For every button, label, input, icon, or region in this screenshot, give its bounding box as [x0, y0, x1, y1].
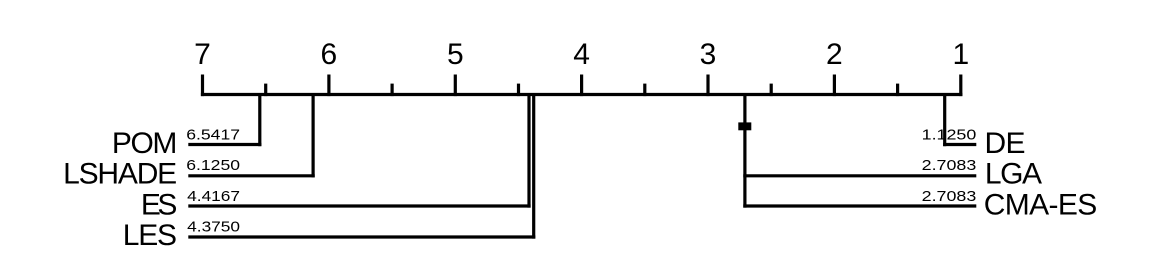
major tick 1: [959, 75, 962, 97]
svg-text:4.3750: 4.3750: [187, 219, 240, 236]
svg-text:1.1250: 1.1250: [922, 126, 977, 143]
POM drop line: [258, 93, 261, 146]
svg-text:6.5417: 6.5417: [186, 126, 240, 143]
svg-text:1: 1: [952, 38, 969, 71]
major tick 2: [833, 75, 836, 97]
LGA/CMA-ES drop line: [743, 93, 746, 208]
svg-text:DE: DE: [984, 127, 1025, 160]
svg-text:4.4167: 4.4167: [187, 188, 240, 205]
svg-text:ES: ES: [141, 188, 178, 221]
svg-text:6.1250: 6.1250: [186, 157, 240, 174]
minor tick 6.5: [264, 84, 267, 97]
DE row line: [943, 143, 976, 146]
major tick 6: [327, 75, 330, 97]
svg-text:2.7083: 2.7083: [922, 188, 977, 205]
svg-text:6: 6: [321, 38, 338, 71]
svg-text:3: 3: [700, 38, 717, 71]
svg-text:2.7083: 2.7083: [922, 157, 977, 174]
ES drop line: [527, 93, 530, 208]
LES drop line: [532, 93, 535, 239]
major tick 7: [201, 75, 204, 97]
LGA row line: [743, 174, 976, 177]
axis line: [201, 93, 963, 96]
clique bar LGA/CMA-ES: [738, 122, 751, 130]
minor tick 1.5: [896, 84, 899, 97]
svg-text:4: 4: [573, 38, 590, 71]
major tick 4: [580, 75, 583, 97]
svg-text:LSHADE: LSHADE: [63, 158, 177, 191]
ES row line: [188, 204, 530, 207]
svg-text:LGA: LGA: [985, 158, 1042, 191]
LSHADE drop line: [312, 93, 315, 177]
svg-text:2: 2: [826, 38, 843, 71]
svg-text:POM: POM: [112, 127, 178, 160]
minor tick 4.5: [517, 84, 520, 97]
major tick 3: [706, 75, 709, 97]
minor tick 5.5: [391, 84, 394, 97]
svg-text:LES: LES: [123, 219, 177, 252]
CMA-ES row line: [743, 204, 976, 207]
minor tick 2.5: [770, 84, 773, 97]
svg-text:7: 7: [194, 38, 211, 71]
major tick 5: [454, 75, 457, 97]
svg-text:5: 5: [447, 38, 464, 71]
svg-text:CMA-ES: CMA-ES: [984, 188, 1098, 221]
LSHADE row line: [188, 174, 314, 177]
minor tick 3.5: [643, 84, 646, 97]
DE drop line: [943, 93, 946, 146]
LES row line: [188, 235, 535, 238]
POM row line: [188, 143, 261, 146]
